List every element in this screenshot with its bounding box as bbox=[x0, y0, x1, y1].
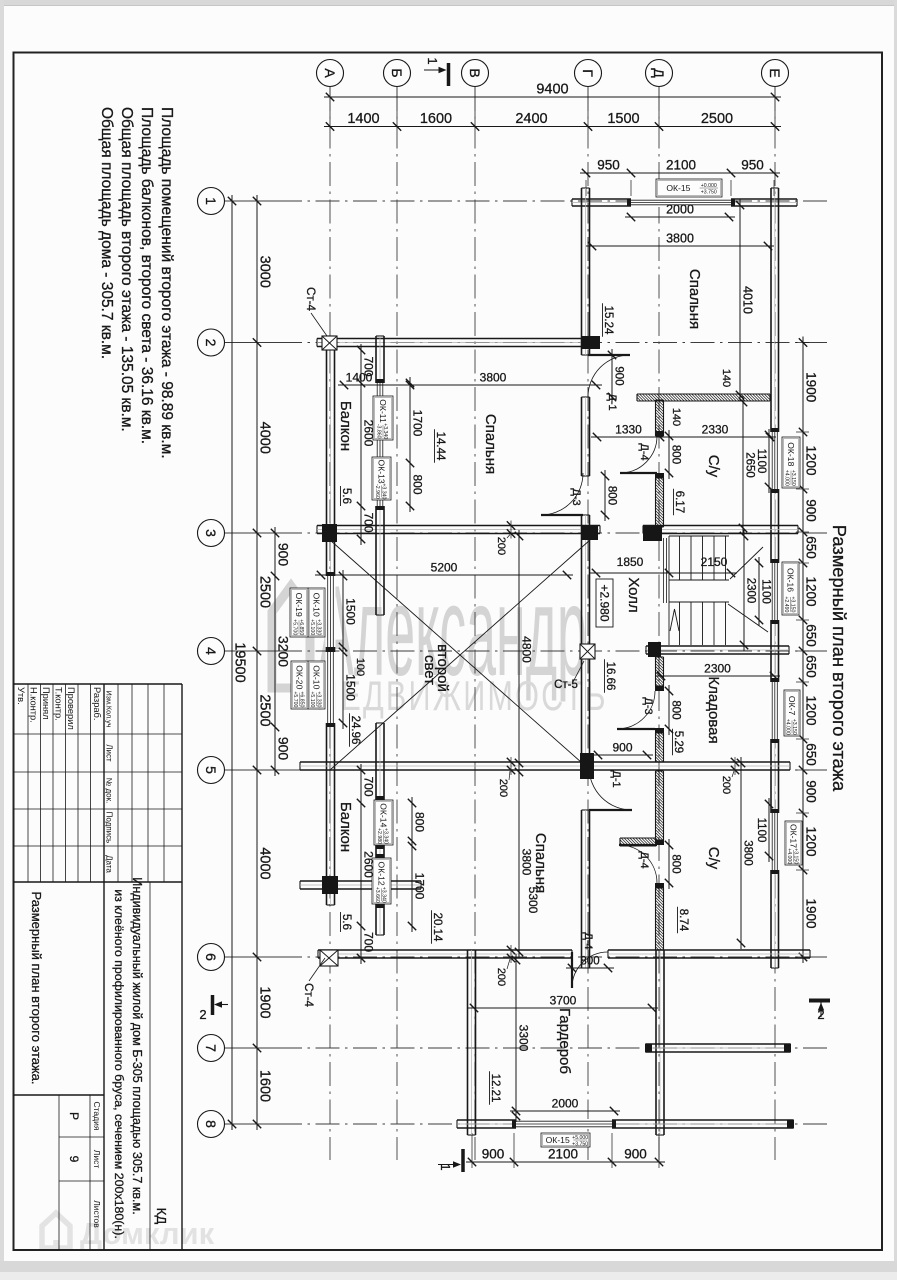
svg-text:900: 900 bbox=[482, 1147, 505, 1162]
svg-text:Р: Р bbox=[67, 1112, 81, 1120]
svg-text:Разраб.: Разраб. bbox=[92, 687, 102, 720]
svg-text:1400: 1400 bbox=[347, 111, 379, 127]
svg-text:ОК-20: ОК-20 bbox=[294, 665, 304, 689]
svg-text:Проверил: Проверил bbox=[66, 687, 76, 730]
svg-text:ОК-13: ОК-13 bbox=[376, 460, 386, 484]
svg-text:3300: 3300 bbox=[517, 1025, 531, 1052]
svg-text:950: 950 bbox=[741, 158, 764, 173]
svg-text:ОК-16: ОК-16 bbox=[785, 568, 795, 592]
svg-text:2150: 2150 bbox=[701, 555, 728, 569]
svg-text:200: 200 bbox=[497, 779, 509, 797]
svg-text:из клеёного профилированного б: из клеёного профилированного бруса, сече… bbox=[112, 889, 126, 1239]
svg-text:20.14: 20.14 bbox=[431, 913, 443, 942]
svg-text:5.6: 5.6 bbox=[340, 488, 352, 504]
svg-text:1330: 1330 bbox=[615, 423, 642, 437]
svg-text:Изм.Кол.уч: Изм.Кол.уч bbox=[105, 691, 114, 728]
svg-text:5: 5 bbox=[203, 766, 219, 774]
svg-text:ОК-15: ОК-15 bbox=[546, 1135, 570, 1145]
svg-text:Г: Г bbox=[580, 69, 596, 77]
svg-text:+3.750: +3.750 bbox=[701, 190, 717, 196]
svg-text:200: 200 bbox=[720, 776, 732, 794]
svg-text:700: 700 bbox=[362, 776, 376, 796]
svg-text:Спальня: Спальня bbox=[532, 833, 549, 893]
svg-text:1100: 1100 bbox=[760, 579, 772, 604]
svg-text:2100: 2100 bbox=[548, 1147, 578, 1162]
svg-text:Лист: Лист bbox=[105, 744, 114, 762]
svg-text:3800: 3800 bbox=[666, 232, 694, 246]
svg-text:+2.980: +2.980 bbox=[376, 828, 382, 844]
svg-text:16.66: 16.66 bbox=[604, 662, 616, 691]
svg-text:1100: 1100 bbox=[755, 449, 767, 474]
svg-text:2500: 2500 bbox=[701, 111, 733, 127]
svg-text:Принял: Принял bbox=[41, 687, 51, 720]
svg-text:ОК-17: ОК-17 bbox=[788, 824, 798, 848]
svg-text:1500: 1500 bbox=[344, 674, 358, 701]
svg-text:2: 2 bbox=[817, 1007, 824, 1022]
svg-text:Индивидуальный жилой дом Б-305: Индивидуальный жилой дом Б-305 площадью … bbox=[130, 877, 144, 1214]
svg-text:ОК-15: ОК-15 bbox=[666, 183, 690, 193]
svg-text:800: 800 bbox=[670, 445, 682, 464]
svg-text:9400: 9400 bbox=[536, 82, 568, 98]
svg-text:ОК-12: ОК-12 bbox=[376, 862, 386, 886]
svg-text:900: 900 bbox=[624, 1147, 647, 1162]
svg-text:+5.700: +5.700 bbox=[291, 619, 297, 635]
svg-text:+3.660: +3.660 bbox=[374, 887, 380, 903]
svg-text:4000: 4000 bbox=[257, 422, 273, 454]
svg-text:1100: 1100 bbox=[755, 818, 767, 843]
svg-text:3000: 3000 bbox=[257, 256, 273, 288]
svg-text:Общая площадь второго этажа -: Общая площадь второго этажа - 135.05 кв.… bbox=[118, 107, 135, 432]
svg-text:С/у: С/у bbox=[705, 455, 722, 478]
svg-text:24.96: 24.96 bbox=[349, 716, 361, 745]
svg-text:1700: 1700 bbox=[411, 410, 425, 437]
svg-text:1500: 1500 bbox=[607, 111, 639, 127]
svg-text:3800: 3800 bbox=[520, 849, 534, 876]
svg-text:2330: 2330 bbox=[702, 423, 729, 437]
svg-text:Е: Е bbox=[767, 68, 783, 77]
svg-text:800: 800 bbox=[670, 700, 682, 719]
svg-text:КД: КД bbox=[154, 1208, 169, 1225]
svg-text:Б: Б bbox=[389, 68, 405, 77]
svg-text:1600: 1600 bbox=[420, 111, 452, 127]
svg-text:5200: 5200 bbox=[431, 561, 458, 575]
svg-text:ОК-10: ОК-10 bbox=[311, 665, 321, 689]
svg-text:№ док.: № док. bbox=[105, 778, 114, 804]
svg-text:1900: 1900 bbox=[257, 986, 273, 1018]
svg-text:800: 800 bbox=[670, 854, 682, 873]
svg-text:2500: 2500 bbox=[257, 694, 273, 726]
svg-text:Д-4: Д-4 bbox=[638, 443, 650, 460]
svg-text:+5.700: +5.700 bbox=[292, 691, 298, 707]
svg-text:+4.000: +4.000 bbox=[784, 719, 790, 735]
svg-text:А: А bbox=[322, 68, 338, 78]
svg-text:ОК-18: ОК-18 bbox=[786, 442, 796, 466]
svg-text:2600: 2600 bbox=[362, 420, 376, 447]
svg-text:1200: 1200 bbox=[804, 695, 819, 725]
svg-text:+4.000: +4.000 bbox=[783, 470, 789, 486]
svg-text:900: 900 bbox=[276, 543, 292, 567]
svg-text:900: 900 bbox=[804, 499, 819, 522]
svg-text:8.74: 8.74 bbox=[677, 909, 689, 932]
svg-text:Общая площадь дома - 305.7 кв.: Общая площадь дома - 305.7 кв.м. bbox=[98, 107, 115, 359]
svg-text:Спальня: Спальня bbox=[686, 269, 703, 329]
svg-text:700: 700 bbox=[362, 512, 376, 532]
svg-text:ОК-14: ОК-14 bbox=[378, 803, 388, 827]
svg-text:В: В bbox=[467, 68, 483, 77]
svg-text:14.44: 14.44 bbox=[434, 432, 446, 461]
svg-text:650: 650 bbox=[804, 624, 819, 647]
svg-text:Ст-4: Ст-4 bbox=[302, 983, 314, 1007]
svg-text:С/у: С/у bbox=[705, 847, 722, 870]
svg-text:+3.750: +3.750 bbox=[572, 1142, 588, 1148]
svg-text:Подпись: Подпись bbox=[105, 812, 114, 844]
svg-text:ОК-10: ОК-10 bbox=[311, 593, 321, 617]
svg-text:+2.490: +2.490 bbox=[783, 596, 789, 612]
svg-text:+5.100: +5.100 bbox=[309, 691, 315, 707]
svg-text:2: 2 bbox=[199, 1007, 206, 1022]
svg-text:4800: 4800 bbox=[520, 636, 534, 663]
svg-text:1500: 1500 bbox=[344, 598, 358, 625]
svg-text:Размерный план второго этажа.: Размерный план второго этажа. bbox=[29, 891, 44, 1084]
svg-text:4000: 4000 bbox=[257, 847, 273, 879]
svg-text:12.21: 12.21 bbox=[489, 1074, 501, 1103]
svg-text:200: 200 bbox=[495, 537, 507, 555]
svg-text:650: 650 bbox=[804, 536, 819, 559]
svg-text:3800: 3800 bbox=[480, 371, 507, 385]
svg-text:ОК-11: ОК-11 bbox=[378, 399, 388, 423]
svg-text:Кладовая: Кладовая bbox=[705, 676, 722, 743]
svg-text:+2.980: +2.980 bbox=[598, 584, 612, 621]
svg-text:7: 7 bbox=[203, 1044, 219, 1052]
svg-text:2100: 2100 bbox=[666, 158, 696, 173]
svg-text:1: 1 bbox=[425, 57, 440, 64]
svg-text:900: 900 bbox=[276, 737, 292, 761]
svg-text:2300: 2300 bbox=[704, 662, 731, 676]
svg-text:свет: свет bbox=[421, 655, 438, 685]
svg-text:1600: 1600 bbox=[257, 1070, 273, 1102]
svg-text:Д-1: Д-1 bbox=[610, 770, 622, 787]
svg-text:3700: 3700 bbox=[550, 994, 577, 1008]
svg-text:Т.контр.: Т.контр. bbox=[54, 687, 64, 721]
svg-text:Лист: Лист bbox=[92, 1150, 102, 1169]
svg-text:Площадь балконов, второго свет: Площадь балконов, второго света - 36.16 … bbox=[138, 107, 155, 444]
svg-text:ОК-19: ОК-19 bbox=[294, 593, 304, 617]
svg-text:700: 700 bbox=[362, 932, 376, 952]
svg-text:4: 4 bbox=[203, 647, 219, 655]
svg-text:3200: 3200 bbox=[276, 636, 292, 667]
svg-text:3800: 3800 bbox=[742, 840, 754, 866]
svg-text:6: 6 bbox=[203, 953, 219, 961]
svg-text:2500: 2500 bbox=[257, 576, 273, 608]
svg-text:4010: 4010 bbox=[741, 286, 755, 314]
svg-text:2000: 2000 bbox=[666, 203, 694, 217]
svg-text:+4.000: +4.000 bbox=[786, 848, 792, 864]
svg-text:140: 140 bbox=[670, 408, 682, 426]
svg-text:Д-4: Д-4 bbox=[638, 851, 650, 868]
svg-text:Д-3: Д-3 bbox=[570, 488, 582, 505]
svg-text:Н.контр.: Н.контр. bbox=[29, 687, 39, 723]
svg-text:Д: Д bbox=[651, 68, 667, 78]
svg-text:19500: 19500 bbox=[232, 642, 248, 682]
svg-text:2650: 2650 bbox=[744, 452, 756, 478]
svg-text:Д-4: Д-4 bbox=[582, 932, 594, 949]
svg-text:100: 100 bbox=[354, 658, 366, 676]
svg-text:Утв.: Утв. bbox=[16, 687, 26, 705]
svg-text:1900: 1900 bbox=[804, 898, 819, 928]
svg-text:+5.100: +5.100 bbox=[309, 619, 315, 635]
svg-text:2: 2 bbox=[203, 339, 219, 347]
svg-text:Холл: Холл bbox=[625, 577, 642, 612]
svg-text:Дата: Дата bbox=[105, 855, 114, 873]
svg-text:900: 900 bbox=[613, 366, 625, 385]
svg-text:1: 1 bbox=[203, 197, 219, 205]
svg-text:700: 700 bbox=[362, 356, 376, 376]
svg-text:1: 1 bbox=[438, 1163, 453, 1170]
svg-text:6.17: 6.17 bbox=[673, 491, 685, 513]
svg-text:Спальня: Спальня bbox=[482, 414, 499, 474]
svg-text:2400: 2400 bbox=[515, 111, 547, 127]
svg-text:800: 800 bbox=[580, 956, 599, 968]
svg-text:8: 8 bbox=[203, 1120, 219, 1128]
svg-text:1700: 1700 bbox=[413, 873, 427, 900]
svg-text:1200: 1200 bbox=[804, 576, 819, 606]
svg-text:1200: 1200 bbox=[804, 826, 819, 856]
svg-text:Площадь помещений второго этаж: Площадь помещений второго этажа - 98.89 … bbox=[158, 107, 175, 459]
svg-text:2300: 2300 bbox=[745, 578, 757, 604]
svg-text:Балкон: Балкон bbox=[337, 802, 354, 852]
svg-text:15.24: 15.24 bbox=[602, 306, 614, 335]
svg-text:Ст-4: Ст-4 bbox=[304, 287, 316, 311]
svg-text:Балкон: Балкон bbox=[337, 401, 354, 451]
svg-text:2000: 2000 bbox=[552, 1097, 579, 1111]
svg-text:900: 900 bbox=[612, 741, 632, 755]
svg-text:900: 900 bbox=[804, 780, 819, 803]
svg-text:3: 3 bbox=[203, 529, 219, 537]
svg-text:2600: 2600 bbox=[362, 851, 376, 878]
svg-text:Гардероб: Гардероб bbox=[556, 1008, 573, 1074]
svg-text:ОК-7: ОК-7 bbox=[787, 696, 797, 716]
svg-text:5.6: 5.6 bbox=[340, 914, 352, 930]
svg-text:800: 800 bbox=[411, 474, 425, 494]
svg-text:140: 140 bbox=[720, 369, 732, 387]
svg-text:Листов: Листов bbox=[92, 1200, 102, 1228]
svg-text:-2.960: -2.960 bbox=[374, 484, 380, 499]
svg-text:Ст-5: Ст-5 bbox=[554, 679, 578, 691]
svg-text:5.29: 5.29 bbox=[672, 731, 684, 753]
svg-text:Д-3: Д-3 bbox=[642, 697, 654, 714]
svg-text:800: 800 bbox=[606, 486, 618, 505]
svg-text:1900: 1900 bbox=[804, 372, 819, 402]
svg-text:650: 650 bbox=[804, 655, 819, 678]
svg-text:650: 650 bbox=[804, 743, 819, 766]
svg-text:9: 9 bbox=[67, 1156, 81, 1163]
svg-text:Стадия: Стадия bbox=[92, 1102, 102, 1131]
svg-text:800: 800 bbox=[413, 812, 427, 832]
svg-text:950: 950 bbox=[597, 158, 620, 173]
svg-text:1200: 1200 bbox=[804, 445, 819, 475]
svg-text:Размерный план второго этажа: Размерный план второго этажа bbox=[829, 525, 850, 792]
svg-text:200: 200 bbox=[495, 968, 507, 986]
svg-text:1850: 1850 bbox=[617, 555, 644, 569]
